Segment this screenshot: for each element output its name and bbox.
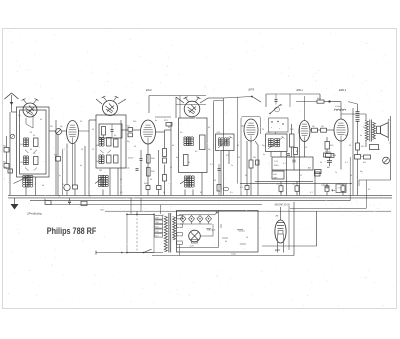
svg-text:40: 40 (225, 241, 227, 243)
svg-text:60: 60 (30, 132, 32, 134)
svg-text:40: 40 (296, 151, 298, 153)
svg-text:AB: AB (327, 166, 330, 169)
svg-text:EM1: EM1 (275, 249, 281, 252)
svg-text:1A: 1A (312, 125, 315, 128)
svg-text:50: 50 (80, 121, 82, 123)
svg-text:50: 50 (214, 180, 216, 182)
svg-text:Rg: Rg (60, 126, 62, 128)
svg-text:40: 40 (150, 179, 152, 181)
svg-text:R50: R50 (290, 129, 293, 131)
svg-text:25u: 25u (277, 184, 280, 186)
svg-text:4.7: 4.7 (283, 163, 287, 165)
svg-text:R1.2: R1.2 (164, 120, 168, 122)
svg-text:R50: R50 (151, 171, 156, 173)
svg-text:Rg: Rg (360, 171, 362, 173)
svg-text:1.25: 1.25 (274, 161, 279, 163)
svg-text:C4a: C4a (126, 168, 130, 170)
svg-text:25: 25 (120, 179, 122, 181)
svg-text:460: 460 (330, 145, 334, 147)
svg-text:50: 50 (58, 196, 60, 198)
svg-text:0.1: 0.1 (345, 162, 348, 164)
svg-text:25: 25 (92, 149, 94, 151)
svg-text:25: 25 (305, 147, 307, 149)
svg-text:c: c (271, 127, 273, 129)
svg-text:25: 25 (363, 127, 365, 129)
svg-text:0.5: 0.5 (230, 192, 233, 194)
svg-text:1A: 1A (321, 125, 324, 128)
svg-text:EK2: EK2 (146, 88, 152, 92)
svg-text:7n: 7n (335, 172, 337, 174)
svg-text:40: 40 (92, 129, 94, 131)
svg-text:40: 40 (345, 135, 347, 137)
svg-text:R50a: R50a (274, 165, 280, 167)
svg-text:40: 40 (172, 145, 174, 147)
svg-text:50: 50 (349, 145, 351, 147)
svg-text:0.1: 0.1 (240, 187, 244, 189)
svg-text:50: 50 (188, 162, 190, 164)
svg-text:c: c (279, 128, 281, 130)
svg-text:0.1: 0.1 (310, 192, 313, 194)
svg-text:3M: 3M (99, 170, 102, 172)
svg-text:4o: 4o (378, 149, 380, 151)
svg-text:EF9: EF9 (249, 87, 255, 91)
svg-text:Rg: Rg (18, 115, 20, 117)
svg-text:5M: 5M (253, 157, 256, 159)
svg-text:7n: 7n (289, 157, 291, 159)
svg-text:40: 40 (114, 135, 117, 137)
svg-text:60: 60 (30, 149, 32, 151)
svg-text:4M: 4M (54, 155, 57, 157)
svg-text:4.2V: 4.2V (190, 246, 195, 248)
svg-text:EBL1: EBL1 (339, 88, 347, 92)
svg-text:40: 40 (40, 119, 42, 121)
svg-text:25: 25 (238, 157, 240, 159)
svg-text:46: 46 (320, 162, 322, 164)
svg-text:4n: 4n (263, 154, 265, 156)
svg-text:50: 50 (368, 189, 370, 191)
svg-text:100: 100 (127, 126, 130, 128)
svg-text:R44: R44 (151, 158, 156, 160)
svg-text:4u: 4u (360, 135, 362, 137)
svg-text:0.1: 0.1 (210, 164, 213, 166)
svg-text:AB EAF 20-30: AB EAF 20-30 (275, 203, 291, 206)
svg-text:1n: 1n (231, 165, 233, 167)
svg-text:100: 100 (96, 161, 99, 163)
svg-text:25: 25 (300, 175, 302, 177)
svg-text:50: 50 (163, 192, 165, 194)
svg-text:40: 40 (245, 175, 247, 177)
svg-text:40: 40 (237, 145, 239, 147)
svg-text:460: 460 (361, 146, 365, 148)
svg-text:4Ω: 4Ω (363, 162, 366, 164)
svg-text:40: 40 (42, 185, 44, 187)
svg-text:8a: 8a (155, 120, 158, 122)
svg-text:40: 40 (180, 132, 183, 134)
svg-text:50: 50 (246, 237, 248, 239)
svg-text:0.1: 0.1 (62, 149, 65, 151)
svg-text:MA Fpab: MA Fpab (207, 229, 216, 232)
svg-text:U.Gha: U.Gha (335, 106, 342, 108)
svg-text:50: 50 (280, 192, 282, 194)
svg-text:7 (5: 7 (5 (338, 188, 343, 190)
svg-text:Philips 788 RF: Philips 788 RF (47, 226, 97, 236)
svg-text:Rg: Rg (262, 145, 264, 147)
svg-text:4u: 4u (176, 157, 178, 159)
svg-text:40: 40 (200, 192, 202, 194)
svg-text:47000: 47000 (128, 158, 133, 160)
svg-text:100: 100 (20, 144, 23, 146)
svg-text:100: 100 (20, 162, 23, 164)
svg-text:AB: AB (276, 215, 279, 218)
svg-text:5u: 5u (44, 199, 46, 201)
svg-text:50: 50 (81, 149, 83, 151)
svg-text:25: 25 (170, 167, 172, 169)
svg-text:50: 50 (89, 196, 92, 198)
svg-text:2nB: 2nB (273, 174, 277, 176)
svg-text:50: 50 (100, 185, 102, 187)
svg-text:Rg: Rg (208, 149, 210, 151)
svg-text:1M: 1M (50, 126, 53, 128)
svg-text:EBL1: EBL1 (297, 88, 304, 92)
svg-text:50: 50 (134, 146, 136, 148)
svg-text:1400: 1400 (332, 155, 337, 157)
svg-text:40: 40 (195, 151, 198, 153)
svg-text:0.1: 0.1 (120, 192, 123, 194)
svg-text:100: 100 (96, 145, 99, 147)
svg-text:40: 40 (208, 127, 210, 129)
svg-text:40: 40 (33, 135, 36, 137)
svg-text:TaA dla: TaA dla (238, 230, 246, 233)
svg-text:40: 40 (33, 153, 36, 155)
svg-text:478: 478 (226, 155, 229, 157)
svg-text:50: 50 (262, 129, 264, 131)
svg-text:74B: 74B (100, 210, 104, 212)
svg-text:Rg: Rg (127, 141, 129, 143)
svg-text:50: 50 (350, 175, 352, 177)
svg-text:100: 100 (133, 121, 136, 123)
svg-text:2Feldkabig: 2Feldkabig (26, 212, 42, 216)
svg-text:AB: AB (308, 167, 311, 170)
svg-text:4400: 4400 (144, 183, 148, 185)
